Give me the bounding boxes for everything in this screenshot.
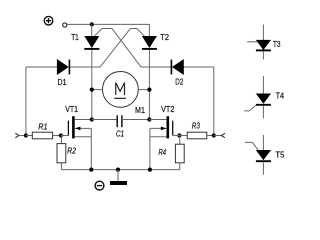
svg-text:R2: R2 <box>67 146 76 156</box>
resistor R3 <box>187 121 207 139</box>
wire R1 to gate node <box>53 135 61 137</box>
transistor VT1 <box>65 104 92 170</box>
diode D1 <box>26 60 70 87</box>
input terminal arrow left <box>15 133 19 138</box>
diode D2 <box>171 60 213 87</box>
wire gate node to R3 <box>179 135 187 137</box>
svg-text:R3: R3 <box>192 121 200 131</box>
svg-text:T1: T1 <box>71 32 79 42</box>
wire R3 to output node <box>207 135 214 137</box>
node ground stub on rail <box>116 168 120 172</box>
wire T1 anode <box>91 24 93 36</box>
thyristor T3 <box>247 25 281 60</box>
node VT1 source on rail <box>89 168 93 172</box>
output terminal arrow right <box>221 133 225 138</box>
svg-text:R1: R1 <box>38 122 47 132</box>
thyristor T2 <box>142 32 169 49</box>
wire gate lead VT1 <box>61 135 69 137</box>
node motor right <box>147 88 151 92</box>
node output junction <box>212 133 216 137</box>
node R1 R2 gate junction <box>59 133 63 137</box>
motor M1 <box>103 72 146 116</box>
wire left rail D1 down to input node <box>25 67 27 136</box>
svg-text:M1: M1 <box>135 105 145 115</box>
wire node to R1 <box>26 135 32 137</box>
node VT1 drain <box>90 117 94 121</box>
wire node to output arrow <box>214 135 222 137</box>
wire T2 cathode down to motor node <box>148 50 150 120</box>
svg-text:T5: T5 <box>275 150 284 160</box>
thyristor T1 <box>71 32 99 49</box>
wire T1 cathode down to motor node <box>91 50 93 120</box>
resistor R4 <box>159 136 185 170</box>
resistor R2 <box>57 136 76 170</box>
minus terminal symbol <box>95 181 104 190</box>
node motor left <box>90 88 94 92</box>
capacitor C1 <box>92 115 150 138</box>
wire motor right lead <box>138 89 149 91</box>
svg-text:VT2: VT2 <box>161 104 175 114</box>
plus terminal symbol <box>44 16 53 25</box>
wire ground rail <box>61 169 179 171</box>
wire input to node <box>19 135 26 137</box>
wire right rail D2 down to output node <box>213 67 215 136</box>
svg-text:C1: C1 <box>116 129 124 139</box>
node VT2 source on rail <box>148 168 152 172</box>
svg-text:T4: T4 <box>276 91 285 101</box>
wire motor left lead <box>92 89 103 91</box>
thyristor T5 <box>245 135 285 175</box>
svg-text:D1: D1 <box>58 77 67 87</box>
node VT2 drain <box>147 117 151 121</box>
wire top rail <box>67 24 149 36</box>
open terminal circle <box>63 23 67 27</box>
svg-text:T3: T3 <box>273 39 281 49</box>
wire gate lead VT2 <box>173 135 180 137</box>
svg-text:D2: D2 <box>175 77 183 87</box>
thyristor T4 <box>244 76 284 118</box>
resistor R1 <box>32 122 52 139</box>
node VT2 gate junction <box>177 133 181 137</box>
wire gate cross link D1 to T2 gate <box>70 29 144 68</box>
transistor VT2 <box>149 104 174 170</box>
svg-text:T2: T2 <box>160 32 169 42</box>
svg-text:VT1: VT1 <box>65 104 78 114</box>
ground <box>110 170 127 185</box>
svg-text:R4: R4 <box>159 147 167 157</box>
wire gate cross link D2 to T1 gate <box>94 29 171 68</box>
node input junction <box>24 133 28 137</box>
node junction top T1 anode <box>90 22 94 26</box>
